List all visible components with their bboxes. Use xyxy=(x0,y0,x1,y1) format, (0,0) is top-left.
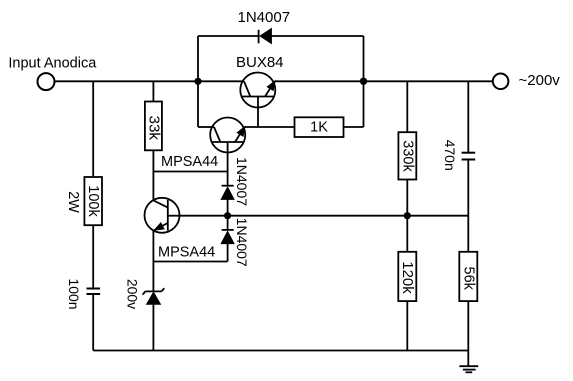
wire Q2 emitter to 1K xyxy=(245,126,295,128)
wire top loop horizontal right xyxy=(271,35,363,37)
capacitor C2 470n xyxy=(462,81,476,252)
diode D1 1N4007 top xyxy=(259,29,272,44)
node junction rail right xyxy=(360,78,367,85)
wire top loop right vertical xyxy=(363,36,365,127)
node junction diode chain xyxy=(224,212,231,219)
ground xyxy=(459,351,478,373)
svg-text:2W: 2W xyxy=(65,191,81,213)
svg-text:120k: 120k xyxy=(399,261,416,294)
resistor R1 33k xyxy=(145,81,162,200)
svg-text:200v: 200v xyxy=(125,279,141,309)
node junction rail left xyxy=(194,78,201,85)
svg-text:56k: 56k xyxy=(460,267,476,291)
node junction 330k 120k xyxy=(404,212,411,219)
wire input rail right (BUX84 emitter to output) xyxy=(275,80,493,82)
zener DZ 200v xyxy=(143,288,165,350)
capacitor C1 100n xyxy=(87,289,101,351)
arrow Q3 emitter xyxy=(154,223,164,230)
svg-text:MPSA44: MPSA44 xyxy=(161,154,218,170)
wire Q3 emitter down xyxy=(152,231,154,292)
svg-text:1N4007: 1N4007 xyxy=(234,157,250,206)
wire 1K to rail vertical xyxy=(344,126,364,128)
svg-text:MPSA44: MPSA44 xyxy=(158,244,215,260)
arrow Q2 emitter xyxy=(237,127,245,136)
wire top loop horizontal left xyxy=(198,35,259,37)
wire tie diode chain to Q3 emitter xyxy=(153,261,227,263)
arrow BUX84 emitter xyxy=(267,81,275,90)
resistor R4 330k xyxy=(398,81,416,252)
svg-text:1N4007: 1N4007 xyxy=(234,218,250,267)
transistor U1 BUX84 xyxy=(240,73,275,128)
svg-text:Input Anodica: Input Anodica xyxy=(8,55,97,71)
svg-text:33k: 33k xyxy=(146,116,163,141)
svg-text:1N4007: 1N4007 xyxy=(238,9,291,26)
diode D2 1N4007 upper vertical xyxy=(221,186,234,216)
svg-text:100n: 100n xyxy=(66,278,82,309)
resistor R5 120k xyxy=(398,252,416,351)
resistor R3 100k 2W xyxy=(84,81,102,288)
terminal output xyxy=(493,74,509,90)
wire Q3 base run to right xyxy=(180,215,469,217)
svg-text:470n: 470n xyxy=(442,140,458,171)
terminal input xyxy=(38,73,55,90)
wire input rail left xyxy=(55,80,244,82)
diode D3 1N4007 lower vertical xyxy=(221,216,234,262)
wire bottom rail xyxy=(93,350,469,352)
svg-text:100k: 100k xyxy=(85,185,101,217)
transistor Q2 MPSA44 upper xyxy=(210,118,245,186)
resistor R6 56k xyxy=(459,252,477,351)
wire top loop left vertical xyxy=(197,36,199,127)
resistor R2 1K xyxy=(295,117,344,137)
wire tie 33k to Q2 base xyxy=(153,171,227,173)
svg-text:1K: 1K xyxy=(310,120,328,136)
transistor Q3 MPSA44 lower xyxy=(145,198,180,233)
svg-text:330k: 330k xyxy=(399,140,415,172)
wire Q2 collector xyxy=(198,126,214,128)
svg-text:~200v: ~200v xyxy=(519,72,561,89)
svg-text:BUX84: BUX84 xyxy=(236,54,284,71)
